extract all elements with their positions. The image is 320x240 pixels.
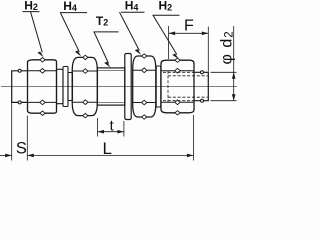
collar step A bbox=[57, 69, 64, 103]
svg-text:t: t bbox=[110, 118, 114, 134]
tube stub left bbox=[12, 71, 28, 103]
F extension line right bbox=[207, 27, 209, 72]
t extension line right bbox=[123, 121, 125, 137]
label H4 left bbox=[60, 0, 87, 56]
svg-text:H4: H4 bbox=[125, 0, 139, 13]
centerline axis bbox=[1, 86, 237, 88]
L arrow right bbox=[187, 154, 194, 158]
tube mark circle left top bbox=[18, 69, 21, 72]
svg-text:F: F bbox=[184, 18, 194, 35]
tube stub right bbox=[194, 72, 208, 100]
t extension line left bbox=[97, 118, 99, 137]
hidden tube end inside right nut (dashed) bbox=[167, 71, 169, 103]
hidden tube ID top (dashed) bbox=[168, 75, 208, 77]
thread root line top bbox=[97, 70, 125, 72]
washer disc B bbox=[63, 67, 68, 107]
hidden tube OD bottom (dashed) bbox=[163, 100, 194, 102]
phi d2 extension top bbox=[211, 71, 237, 73]
tube mark circle right bottom bbox=[201, 99, 204, 102]
washer disc right bbox=[156, 66, 161, 107]
facet diamonds on left hex bbox=[83, 55, 88, 118]
F dimension line bbox=[169, 32, 209, 34]
bulkhead panel washer bbox=[125, 54, 131, 120]
S dimension tail bbox=[0, 154, 12, 156]
phi d2 arrow bottom bbox=[232, 94, 236, 101]
tube mark circle right top bbox=[201, 71, 204, 74]
phi d2 arrow top bbox=[232, 72, 236, 79]
cap nut left (H2) bbox=[28, 60, 57, 113]
t arrow left bbox=[98, 130, 105, 134]
locknut hex (H4) bbox=[133, 56, 156, 117]
L extension line right bbox=[192, 115, 194, 161]
L arrow left bbox=[27, 154, 34, 158]
label H2 right bbox=[153, 0, 180, 59]
facet diamonds on right nut bbox=[175, 58, 180, 115]
S arrow (outside, pointing right) bbox=[5, 154, 12, 158]
L dimension line bbox=[27, 154, 193, 156]
hidden tube ID bottom (dashed) bbox=[168, 96, 208, 98]
body hex left (H4) bbox=[72, 57, 97, 115]
svg-text:S: S bbox=[16, 140, 27, 158]
threaded shank (T2) bbox=[97, 68, 125, 105]
t dimension line bbox=[98, 131, 124, 133]
svg-text:L: L bbox=[103, 139, 112, 158]
phi d2 extension bottom bbox=[211, 100, 237, 102]
arrowheads bbox=[5, 32, 235, 158]
svg-text:H2: H2 bbox=[24, 0, 38, 12]
label H4 right bbox=[120, 0, 145, 55]
phi d2 dimension line bbox=[233, 26, 235, 101]
tube mark circle left bottom bbox=[18, 101, 21, 104]
t arrow right bbox=[117, 130, 124, 134]
facet diamonds on locknut bbox=[142, 54, 147, 119]
facet diamonds on left nut bbox=[40, 58, 45, 116]
cap nut right (H2) bbox=[161, 60, 194, 113]
neck C bbox=[68, 73, 73, 101]
thread root line bottom bbox=[97, 101, 125, 103]
S extension line left bbox=[11, 102, 13, 160]
F extension line left bbox=[168, 26, 170, 59]
F arrow right bbox=[202, 32, 209, 36]
label T2 bbox=[94, 14, 119, 68]
hidden tube OD top (dashed) bbox=[163, 71, 194, 73]
label H2 left bbox=[23, 0, 44, 57]
F arrow left bbox=[169, 32, 176, 36]
svg-text:H2: H2 bbox=[159, 0, 173, 13]
S extension line right / L left bbox=[26, 116, 28, 161]
